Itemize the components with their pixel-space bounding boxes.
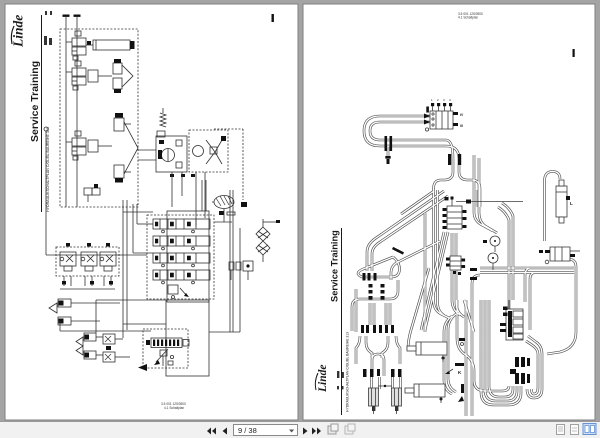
bottom valve internals — [138, 349, 174, 371]
page mark I — [573, 49, 575, 57]
steer feed hoses — [408, 268, 456, 394]
priority valve — [539, 247, 580, 264]
central control valve — [443, 197, 467, 230]
cross horizontal hoses — [480, 268, 574, 330]
filter diamonds — [256, 219, 280, 262]
spool block outline — [167, 211, 209, 302]
connector lines pump area — [138, 129, 243, 226]
feed lines into spool block — [44, 127, 153, 338]
svg-text:Linde: Linde — [11, 15, 26, 48]
cylinder 2 pair — [113, 59, 133, 93]
valve group 2 — [66, 61, 112, 90]
right mid fittings — [470, 240, 487, 280]
upper right cylinder L — [556, 180, 573, 223]
bus line III — [63, 15, 70, 208]
two-page icon active — [583, 424, 596, 435]
right page sheet — [303, 4, 595, 420]
hose to cylinder L — [545, 172, 561, 242]
spool 4 — [153, 270, 210, 284]
left long return hoses — [466, 275, 480, 416]
return frame lines right side — [96, 180, 240, 376]
svg-text:III: III — [460, 124, 463, 128]
cylinder 1 — [86, 40, 135, 50]
distributor valve block — [430, 111, 453, 129]
svg-text:9 / 38: 9 / 38 — [238, 426, 257, 435]
box feed lines — [60, 321, 166, 331]
svg-text:Service Training: Service Training — [330, 230, 340, 302]
center vertical hoses — [421, 232, 464, 330]
tilt cylinder feed hoses — [356, 336, 401, 389]
spool 2 — [153, 236, 210, 250]
valve group 3 — [66, 131, 112, 160]
valve group 1 — [66, 31, 91, 60]
trio valve 2 — [81, 252, 97, 271]
last page button — [312, 428, 321, 435]
pump unit dashed box — [189, 130, 228, 172]
header tiny text — [458, 12, 483, 20]
spool 1 — [153, 219, 210, 233]
brake cylinder lower pair — [76, 333, 130, 362]
bottom U hoses — [457, 300, 521, 405]
bus line IV — [74, 15, 81, 208]
toolbar background — [0, 422, 600, 438]
left cluster fittings — [361, 247, 404, 377]
slack ring loop right — [459, 172, 480, 207]
prev page button — [223, 428, 228, 435]
steer cylinder upper — [407, 342, 447, 362]
pump unit box — [156, 136, 187, 172]
svg-text:Linde: Linde — [317, 365, 329, 393]
manifold block — [500, 300, 523, 340]
first page button — [207, 428, 216, 435]
trio valve 3 — [100, 252, 116, 271]
tilt cylinder right — [392, 388, 402, 414]
hose bundle to port IV — [370, 122, 453, 172]
lower-left valve trio dashed box — [56, 247, 119, 276]
next page button — [303, 428, 308, 435]
hose into cluster top — [391, 241, 440, 280]
check valve pair — [229, 261, 253, 280]
pressure gauges — [488, 236, 500, 270]
hose branch short — [401, 191, 434, 214]
trio top feeds — [66, 243, 110, 247]
relief valve under spools — [168, 285, 189, 299]
continuous icon — [571, 425, 579, 435]
kapitel/seite right — [337, 371, 344, 389]
K port fitting — [445, 338, 465, 375]
svg-text:Service Training: Service Training — [29, 61, 41, 142]
svg-text:L: L — [570, 201, 573, 206]
pump drain marks — [170, 174, 195, 177]
toolbar top border — [0, 421, 600, 423]
bottom part number text — [161, 402, 186, 410]
long feed from left — [44, 127, 48, 131]
bottom spool — [146, 338, 189, 348]
bottom right loop hoses — [526, 336, 542, 398]
cylinder 3 pair — [114, 113, 138, 183]
left cluster hoses — [352, 280, 398, 332]
main spool block dashed — [147, 215, 214, 299]
capped stub hose — [387, 146, 390, 160]
history fwd icon — [345, 424, 355, 434]
hose network dark layer — [352, 116, 576, 416]
page mark I — [272, 14, 274, 22]
brake cylinder upper — [49, 299, 120, 325]
left page sheet — [5, 4, 298, 420]
hose lift to left cluster — [367, 191, 448, 271]
hose triangle coil — [358, 257, 400, 277]
hose network white core — [352, 116, 576, 416]
ring right verticals — [474, 155, 497, 233]
secondary valve below — [446, 256, 465, 275]
small valve lower in box — [84, 184, 100, 202]
svg-text:HYDRAULIKSCHALTPLAN C/GL/BL BA: HYDRAULIKSCHALTPLAN C/GL/BL BAUREIHE 313 — [346, 332, 350, 412]
block side ports — [424, 107, 464, 132]
dashed main box — [60, 29, 138, 207]
svg-text:4.1 Schaltplan: 4.1 Schaltplan — [458, 16, 478, 20]
fitting cluster bottom right — [461, 357, 530, 393]
trio drains — [60, 276, 115, 289]
svg-text:4.1 Schaltplan: 4.1 Schaltplan — [164, 406, 184, 410]
tilt cylinder left — [369, 388, 379, 414]
cylinder cross line — [378, 385, 392, 387]
slack ring loop left — [434, 172, 454, 258]
pump feed hoses — [498, 203, 513, 330]
priority valve out hose — [547, 259, 576, 354]
single page icon — [557, 425, 565, 435]
hatched pump — [212, 196, 247, 223]
page number box — [234, 425, 298, 436]
trio valve 1 — [60, 252, 76, 271]
drain arrow bottom left — [458, 396, 464, 402]
spool 3 — [153, 253, 210, 267]
bottom valve dashed box — [143, 329, 188, 368]
header rule right page — [341, 228, 343, 415]
hose center drop — [424, 213, 427, 332]
steer cylinder lower — [405, 384, 445, 403]
hose bundle to port III — [364, 116, 459, 172]
line to right from valve — [445, 197, 524, 204]
bundle joints — [385, 136, 462, 165]
Kapitel / Seite labels — [44, 11, 52, 45]
block top ports — [431, 98, 452, 111]
spring restrictor — [157, 108, 166, 144]
header rule — [41, 15, 43, 212]
svg-text:HYDRAULIKSCHALTPLAN C/GL/BL BA: HYDRAULIKSCHALTPLAN C/GL/BL BAUREIHE 313 — [46, 127, 50, 212]
Linde logo (rotated) — [11, 15, 26, 48]
Linde logo right page (rotated) — [315, 365, 329, 393]
history back icon — [328, 424, 338, 434]
